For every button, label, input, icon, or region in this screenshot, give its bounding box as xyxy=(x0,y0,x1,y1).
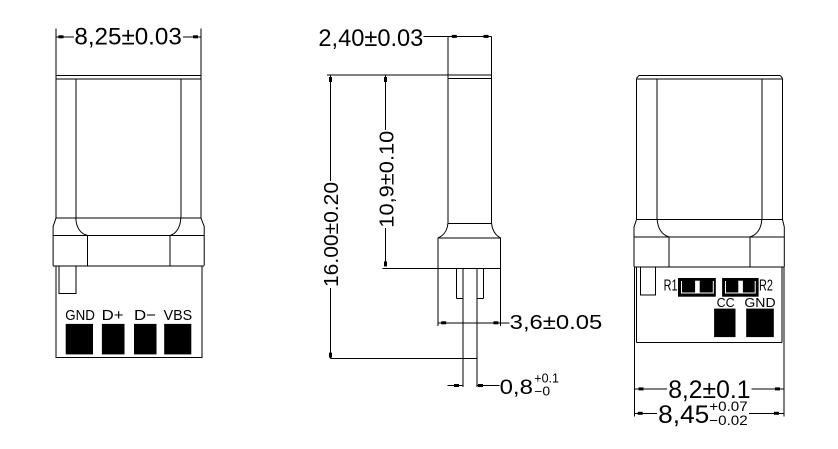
shell inner left vertical xyxy=(656,79,658,220)
slot outer right xyxy=(482,268,484,298)
svg-text:R1: R1 xyxy=(664,278,678,295)
shoulder flare outer left xyxy=(634,220,637,267)
pad CC xyxy=(714,309,735,338)
collar right vertical xyxy=(500,238,502,269)
slot outer left xyxy=(456,268,458,298)
svg-text:D+: D+ xyxy=(102,307,124,324)
dim 10,9 line lower xyxy=(385,228,387,266)
shell inner left vertical xyxy=(75,79,77,218)
svg-text:2,40±0.03: 2,40±0.03 xyxy=(318,25,423,52)
svg-text:D−: D− xyxy=(134,307,156,324)
shoulder curve inner left xyxy=(657,220,669,237)
pad D+ xyxy=(102,324,125,355)
dim 16,00 arrow top xyxy=(329,77,332,82)
shoulder line xyxy=(637,219,783,221)
collar bottom line xyxy=(634,266,784,268)
block right vertical xyxy=(500,268,502,326)
dim 0,8 arrow left xyxy=(454,384,459,387)
shell inner right vertical xyxy=(761,79,763,220)
svg-text:CC: CC xyxy=(717,296,735,310)
resistor R2 white outline xyxy=(726,281,756,293)
dim 0,8 line right segment xyxy=(477,385,500,387)
shell chamfer top-right xyxy=(780,75,782,78)
dim 8,2 line right segment xyxy=(752,388,785,390)
shell chamfer top-left xyxy=(637,75,640,78)
svg-text:8,45: 8,45 xyxy=(658,401,709,429)
dim 2,40 arrow right xyxy=(484,35,489,38)
svg-text:+0.1: +0.1 xyxy=(534,372,559,386)
dim 8,25 extension line left xyxy=(55,28,57,75)
pad VBS xyxy=(164,324,191,355)
shoulder flare outer right xyxy=(783,220,785,267)
resistor R1 white slot xyxy=(695,281,700,293)
slot cap right xyxy=(477,298,483,300)
tube shoulder line xyxy=(448,222,492,224)
housing inner right vertical xyxy=(781,267,783,342)
pad D- xyxy=(134,324,157,355)
collar inner vertical right xyxy=(169,236,171,266)
latch tab xyxy=(59,266,76,294)
dim 10,9 arrow bottom xyxy=(384,261,387,266)
collar inner vertical left xyxy=(87,236,89,266)
tube top band line xyxy=(448,78,492,80)
svg-text:R2: R2 xyxy=(759,278,773,295)
pad GND xyxy=(746,309,774,338)
collar inner vertical left xyxy=(668,237,670,267)
shoulder curve inner left xyxy=(76,218,88,235)
svg-text:GND: GND xyxy=(65,307,95,324)
shell body right vertical xyxy=(782,78,784,219)
dim 2,40 arrow left xyxy=(452,35,457,38)
svg-text:−0: −0 xyxy=(534,385,550,399)
flare curve left xyxy=(438,223,448,238)
shell inner right vertical xyxy=(180,79,182,218)
dim 10,9 line upper xyxy=(385,75,387,130)
dim 8,25 line left segment xyxy=(56,36,74,38)
dim 3,6 arrow left xyxy=(441,321,446,324)
svg-text:3,6±0.05: 3,6±0.05 xyxy=(510,312,603,334)
resistor R2 white slot xyxy=(738,281,743,293)
svg-text:VBS: VBS xyxy=(164,307,193,324)
dim 8,45 arrow right xyxy=(774,412,779,415)
dim 8,45 line right segment xyxy=(749,412,784,414)
shell top band line xyxy=(56,78,201,80)
shoulder curve inner right xyxy=(170,218,181,235)
dim 0,8 line left tail xyxy=(448,385,464,387)
svg-text:0,8: 0,8 xyxy=(500,376,533,399)
shoulder flare outer right xyxy=(201,218,204,266)
shoulder curve inner right xyxy=(750,220,762,237)
shoulder flare outer left xyxy=(53,218,56,266)
housing outline xyxy=(56,266,202,358)
housing outer right vertical / extension xyxy=(783,267,785,417)
shell top line xyxy=(639,74,780,76)
dim 16,00 bottom reference line xyxy=(331,358,477,360)
stem right vertical xyxy=(476,268,478,387)
dim 8,45 arrow left xyxy=(638,412,643,415)
shell body outline xyxy=(56,76,201,219)
flare curve right xyxy=(492,223,501,238)
housing bottom line xyxy=(636,341,781,343)
block left vertical xyxy=(437,268,439,326)
dim 3,6 arrow right xyxy=(493,321,498,324)
dim 8,25 line right segment xyxy=(183,36,201,38)
svg-text:8,25±0.03: 8,25±0.03 xyxy=(74,24,181,51)
resistor R1 body xyxy=(678,278,716,297)
collar inner vertical right xyxy=(749,237,751,267)
tube right vertical xyxy=(491,36,493,223)
dim 16,00 line lower xyxy=(330,288,332,359)
dim 8,25 extension line right xyxy=(200,28,202,75)
tube left vertical xyxy=(447,36,449,223)
dim 0,8 arrow right xyxy=(478,384,483,387)
collar top line xyxy=(438,237,501,239)
svg-text:16.00±0.20: 16.00±0.20 xyxy=(321,182,343,287)
collar top line xyxy=(53,235,204,237)
dim 8,25 arrow right xyxy=(193,35,198,38)
dim 8,2 arrow left xyxy=(639,387,644,390)
dim 8,25 arrow left xyxy=(59,35,64,38)
dim 10,9 arrow top xyxy=(384,77,387,82)
svg-text:GND: GND xyxy=(744,296,775,310)
latch tab xyxy=(640,267,655,295)
svg-text:10,9±0.10: 10,9±0.10 xyxy=(377,131,399,228)
tube top reference line xyxy=(327,74,492,76)
svg-text:+0.07: +0.07 xyxy=(709,399,747,414)
block bottom and dim 3,6 line xyxy=(438,322,510,324)
dim 8,2 line left segment xyxy=(635,388,667,390)
slot cap left xyxy=(457,298,464,300)
stem left vertical xyxy=(462,268,464,387)
dim 8,45 line left segment xyxy=(635,412,657,414)
pad GND xyxy=(66,324,93,355)
collar top line xyxy=(634,236,784,238)
housing inner left vertical xyxy=(635,267,637,342)
housing outer left vertical / extension xyxy=(634,267,636,417)
resistor R1 white outline xyxy=(682,281,714,293)
dim 2,40 leader line xyxy=(423,35,491,37)
collar bottom line with 10,9 reference xyxy=(383,267,501,269)
dim 8,2 arrow right xyxy=(775,387,780,390)
dim 16,00 arrow bottom xyxy=(329,353,332,358)
shell top band line xyxy=(637,78,783,80)
svg-text:−0.02: −0.02 xyxy=(709,413,747,428)
dim 16,00 line upper xyxy=(330,75,332,181)
shell body left vertical xyxy=(636,78,638,219)
collar left vertical xyxy=(437,238,439,269)
resistor R2 body xyxy=(722,278,759,297)
collar bottom line xyxy=(53,265,204,267)
